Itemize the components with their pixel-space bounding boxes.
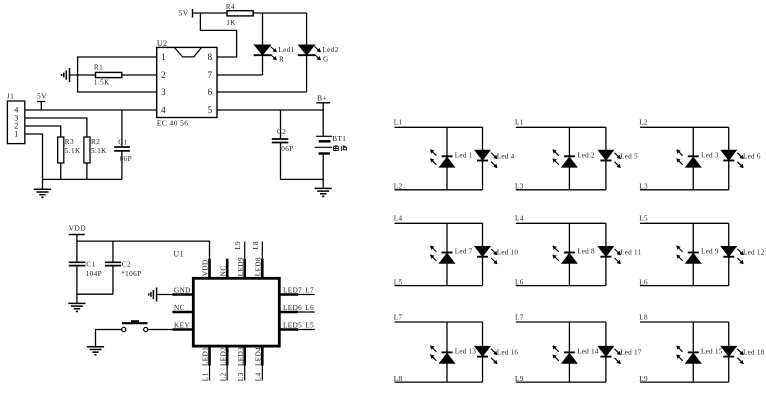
battery BT1 <box>315 110 347 188</box>
svg-text:GND: GND <box>174 286 191 294</box>
ground rail (J1 area) <box>43 178 122 180</box>
LED Led9 <box>677 246 719 263</box>
svg-text:L3: L3 <box>515 183 524 191</box>
svg-text:L8: L8 <box>639 313 648 321</box>
svg-text:L7: L7 <box>394 313 403 321</box>
svg-text:VDD: VDD <box>69 224 87 233</box>
pin LED7 (U1 right) <box>281 286 315 294</box>
ground (U1 GND) <box>149 288 157 302</box>
svg-text:Led 2: Led 2 <box>577 152 595 160</box>
svg-text:L6: L6 <box>515 278 524 286</box>
pin LED4 (U1 bottom) <box>254 347 262 381</box>
svg-text:1.5K: 1.5K <box>94 79 110 87</box>
svg-text:5.1K: 5.1K <box>91 147 107 155</box>
LED Led3 <box>677 150 719 167</box>
node L9 (cell r3c3 bottom) <box>639 375 729 383</box>
svg-text:LED1: LED1 <box>202 347 210 366</box>
svg-text:L4: L4 <box>254 372 262 381</box>
ground rail (battery) <box>281 178 324 180</box>
svg-text:Led 11: Led 11 <box>620 249 641 257</box>
svg-text:L3: L3 <box>237 372 245 381</box>
ground (J1 area) <box>34 179 51 197</box>
node L8 (cell r3c1 bottom) <box>394 375 483 383</box>
svg-text:NC: NC <box>219 265 227 276</box>
resistor R4 <box>226 3 307 27</box>
connector J1 <box>7 92 25 144</box>
svg-text:LED7: LED7 <box>283 286 302 294</box>
svg-text:Led 7: Led 7 <box>455 248 473 256</box>
svg-text:1: 1 <box>161 53 166 63</box>
pin LED8 (U1 top) <box>254 242 262 279</box>
resistor R3 <box>58 137 81 179</box>
wire cell r3c3 verticals <box>693 322 729 382</box>
LED Led10 <box>475 247 518 264</box>
svg-text:C1: C1 <box>86 260 95 268</box>
svg-text:G: G <box>323 55 329 63</box>
svg-text:L7: L7 <box>515 313 524 321</box>
power 5V (top) <box>179 8 227 17</box>
LED Led7 <box>430 246 472 263</box>
node L6 (cell r2c3 bottom) <box>639 278 729 286</box>
svg-text:*106P: *106P <box>121 270 141 278</box>
svg-text:Led 18: Led 18 <box>743 349 765 357</box>
resistor R1 <box>70 63 157 86</box>
ground (caps) <box>68 303 85 311</box>
svg-text:BT1: BT1 <box>332 135 346 143</box>
net L5 <box>305 321 314 329</box>
net L3 <box>237 372 245 381</box>
svg-text:R1: R1 <box>94 63 103 71</box>
node L9 (cell r3c2 bottom) <box>515 375 606 383</box>
ground (button) <box>87 347 104 355</box>
svg-text:R: R <box>279 55 284 63</box>
svg-text:KEY: KEY <box>174 321 190 329</box>
pin LED5 (U1 right) <box>281 321 315 329</box>
svg-text:LED9: LED9 <box>237 257 245 276</box>
svg-text:R4: R4 <box>226 3 235 11</box>
node L5 (cell r2c1 bottom) <box>394 278 483 286</box>
node L7 (cell r3c1 top) <box>394 313 483 322</box>
svg-text:L2: L2 <box>219 372 227 381</box>
LED Led12 <box>721 247 764 264</box>
svg-text:Led 6: Led 6 <box>743 153 761 161</box>
LED Led1 <box>254 13 295 75</box>
node L4 (cell r2c1 top) <box>394 215 483 224</box>
power 5V (left) <box>37 92 47 111</box>
net L1 <box>202 372 210 381</box>
svg-text:LED8: LED8 <box>254 257 262 276</box>
svg-text:L5: L5 <box>639 215 648 223</box>
LED Led11 <box>598 247 641 264</box>
svg-text:B+: B+ <box>317 94 327 103</box>
pin LED9 (U1 top) <box>237 242 245 279</box>
LED Led5 <box>598 150 638 167</box>
svg-text:LED4: LED4 <box>254 347 262 366</box>
svg-text:J1: J1 <box>7 92 14 101</box>
wire cap ground rail <box>77 293 113 295</box>
power B+ <box>316 94 330 110</box>
wire U2.1 loop <box>78 57 157 92</box>
node L3 (cell r1c3 bottom) <box>639 183 729 191</box>
svg-text:06P: 06P <box>120 155 132 163</box>
svg-text:Led 10: Led 10 <box>497 249 519 257</box>
wire VDD rail to U1 <box>77 241 210 259</box>
svg-text:1K: 1K <box>226 19 236 27</box>
svg-text:Led 3: Led 3 <box>701 152 719 160</box>
node L1 (cell r1c1 top) <box>394 119 483 128</box>
svg-text:L9: L9 <box>234 241 242 250</box>
net L6 <box>305 304 314 312</box>
wire U2.5 to B+ <box>217 109 323 111</box>
node L2 (cell r1c1 bottom) <box>394 183 483 191</box>
wire cell r2c1 verticals <box>447 223 483 285</box>
net L2 <box>219 372 227 381</box>
svg-text:5.1K: 5.1K <box>65 147 81 155</box>
wire cell r1c1 verticals <box>447 127 483 190</box>
node L5 (cell r2c3 top) <box>639 215 729 224</box>
svg-text:LED2: LED2 <box>219 347 227 366</box>
svg-text:06P: 06P <box>281 145 293 153</box>
svg-text:U1: U1 <box>173 250 184 259</box>
svg-text:L4: L4 <box>394 215 403 223</box>
pin LED3 (U1 bottom) <box>237 347 245 381</box>
svg-text:Led2: Led2 <box>322 46 338 54</box>
svg-text:L3: L3 <box>639 183 648 191</box>
node L1 (cell r1c2 top) <box>515 119 606 128</box>
svg-text:EC 40 56: EC 40 56 <box>157 119 189 128</box>
svg-text:L6: L6 <box>305 304 314 312</box>
svg-text:C1: C1 <box>118 138 127 146</box>
svg-text:8: 8 <box>208 53 213 63</box>
pin LED6 (U1 right) <box>281 304 315 312</box>
wire J1.2 to R3 <box>25 126 61 137</box>
svg-text:3: 3 <box>161 88 166 98</box>
wire 5V to U2.8 <box>200 13 236 57</box>
wire cell r3c1 verticals <box>447 322 483 382</box>
net L8 <box>252 241 260 250</box>
LED Led4 <box>475 150 515 167</box>
pin LED2 (U1 bottom) <box>219 347 227 381</box>
wire U2.6 to Led2 <box>217 91 307 93</box>
svg-text:L6: L6 <box>639 278 648 286</box>
LED Led14 <box>553 346 599 363</box>
capacitor C2 <box>272 110 294 179</box>
svg-text:L4: L4 <box>515 215 524 223</box>
svg-text:Led1: Led1 <box>278 46 294 54</box>
wire J1.4 to U2.4 rail <box>25 109 157 111</box>
LED Led2 <box>298 13 339 92</box>
LED Led16 <box>475 346 518 363</box>
svg-text:6: 6 <box>208 88 213 98</box>
svg-text:5V: 5V <box>37 92 47 101</box>
svg-text:L1: L1 <box>515 119 524 127</box>
node L8 (cell r3c3 top) <box>639 313 729 322</box>
pin KEY (U1 left) <box>148 321 193 329</box>
node L2 (cell r1c3 top) <box>639 119 729 128</box>
svg-text:LED6: LED6 <box>283 304 302 312</box>
ground (battery) <box>315 188 332 196</box>
pin VDD (U1 top) <box>202 259 210 278</box>
pin NC (U1 left) <box>172 304 193 312</box>
pin LED1 (U1 bottom) <box>202 347 210 381</box>
svg-text:L2: L2 <box>639 119 648 127</box>
node L6 (cell r2c2 bottom) <box>515 278 606 286</box>
svg-text:Led 16: Led 16 <box>497 349 519 357</box>
svg-text:C2: C2 <box>122 260 131 268</box>
svg-text:L8: L8 <box>252 241 260 250</box>
svg-text:LED3: LED3 <box>237 347 245 366</box>
svg-text:Led 12: Led 12 <box>743 249 765 257</box>
LED Led2 <box>553 150 595 167</box>
LED Led8 <box>553 246 595 263</box>
node L3 (cell r1c2 bottom) <box>515 183 606 191</box>
svg-text:L8: L8 <box>394 375 403 383</box>
node L7 (cell r3c2 top) <box>515 313 606 322</box>
IC U2 <box>157 39 217 128</box>
push button S1 <box>122 321 148 331</box>
wire cell r2c2 verticals <box>569 223 606 285</box>
wire cell r1c3 verticals <box>693 127 729 190</box>
net L7 <box>305 286 314 294</box>
svg-text:L2: L2 <box>394 183 403 191</box>
node L4 (cell r2c2 top) <box>515 215 606 224</box>
power VDD <box>69 224 87 263</box>
svg-text:Led 1: Led 1 <box>455 152 473 160</box>
IC U1 <box>173 250 279 346</box>
svg-text:1: 1 <box>14 130 19 139</box>
svg-text:104P: 104P <box>86 270 102 278</box>
svg-text:L5: L5 <box>394 278 403 286</box>
svg-text:U2: U2 <box>157 39 168 48</box>
svg-text:5: 5 <box>208 106 213 116</box>
net L4 <box>254 372 262 381</box>
resistor R2 <box>84 137 107 179</box>
svg-text:4: 4 <box>161 106 166 116</box>
battery label dianchi <box>334 145 347 151</box>
svg-text:LED5: LED5 <box>283 321 302 329</box>
svg-text:Led 5: Led 5 <box>620 153 638 161</box>
svg-text:VDD: VDD <box>202 259 210 276</box>
svg-text:L5: L5 <box>305 321 314 329</box>
svg-text:Led 15: Led 15 <box>701 348 723 356</box>
svg-text:2: 2 <box>161 71 166 81</box>
svg-text:Led 17: Led 17 <box>620 349 642 357</box>
net L9 <box>234 241 242 250</box>
capacitor C1 <box>114 110 132 179</box>
svg-text:NC: NC <box>174 304 185 312</box>
svg-text:R3: R3 <box>65 138 74 146</box>
wire cell r1c2 verticals <box>569 127 606 190</box>
pin GND (U1 left) <box>157 286 194 294</box>
LED Led17 <box>598 346 641 363</box>
ground (R1) <box>62 68 70 82</box>
svg-text:R2: R2 <box>91 138 100 146</box>
wire cell r3c2 verticals <box>569 322 606 382</box>
svg-text:Led 9: Led 9 <box>701 248 719 256</box>
svg-text:Led 14: Led 14 <box>577 348 599 356</box>
svg-text:C2: C2 <box>277 128 286 136</box>
LED Led18 <box>721 346 764 363</box>
svg-text:Led 4: Led 4 <box>497 153 515 161</box>
svg-text:L1: L1 <box>202 372 210 381</box>
svg-text:L1: L1 <box>394 119 403 127</box>
pin NC (U1 top) <box>219 259 227 278</box>
capacitor C1 (U1) <box>69 260 102 303</box>
svg-text:L9: L9 <box>639 375 648 383</box>
wire U2.7 to Led1 <box>217 74 263 76</box>
wire J1.3 to R2 <box>25 118 87 137</box>
LED Led6 <box>721 150 761 167</box>
LED Led13 <box>430 346 476 363</box>
capacitor C2 (U1) <box>105 241 142 294</box>
svg-text:5V: 5V <box>179 8 189 17</box>
wire J1.1 down to ground rail <box>25 134 43 179</box>
svg-text:7: 7 <box>208 71 213 81</box>
svg-text:Led 8: Led 8 <box>577 248 595 256</box>
svg-text:L7: L7 <box>305 286 314 294</box>
wire button to ground <box>96 330 122 347</box>
LED Led1 <box>430 150 472 167</box>
LED Led15 <box>677 346 723 363</box>
svg-text:Led 13: Led 13 <box>455 348 477 356</box>
svg-text:L9: L9 <box>515 375 524 383</box>
wire cell r2c3 verticals <box>693 223 729 285</box>
